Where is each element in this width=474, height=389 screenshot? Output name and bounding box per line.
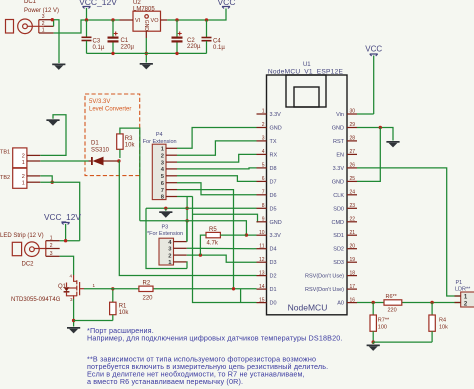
capacitor C3 — [82, 20, 105, 53]
svg-text:SD1: SD1 — [333, 233, 344, 239]
DC2 pin 3 — [46, 251, 60, 257]
wire DC1 pin2 to pin3 junction — [53, 20, 55, 27]
P3 pin 2 — [174, 254, 187, 256]
svg-text:4: 4 — [69, 274, 72, 279]
wire GND row to D5 pin — [146, 207, 257, 209]
junction R7 top — [372, 301, 375, 304]
ground (LDR divider) — [367, 345, 380, 347]
junction C3 top — [85, 18, 88, 21]
U1 pin 5 D8 — [257, 163, 277, 172]
svg-text:25: 25 — [350, 176, 356, 182]
svg-text:16: 16 — [350, 297, 356, 303]
U1 pin 17 RSV(Don't Use) — [305, 284, 357, 293]
svg-text:R6**: R6** — [386, 294, 398, 300]
wire D1 row to D0 row — [240, 289, 242, 303]
U1 pin 10 3.3V — [257, 230, 282, 239]
wire R3 top to 3.3V line — [120, 128, 140, 221]
svg-text:24: 24 — [350, 190, 356, 196]
svg-text:R1: R1 — [119, 304, 127, 310]
U1 pin 25 GND — [332, 176, 357, 185]
svg-text:19: 19 — [350, 257, 356, 263]
svg-text:P3: P3 — [162, 224, 169, 230]
svg-text:P4: P4 — [156, 132, 163, 138]
wire U2 GND to bottom rail, ground — [145, 38, 147, 63]
svg-text:VCC_12V: VCC_12V — [44, 212, 81, 222]
svg-text:D8: D8 — [270, 166, 277, 172]
P4 pin 3 — [166, 161, 177, 163]
svg-text:10k: 10k — [439, 324, 448, 330]
svg-text:GND: GND — [332, 126, 344, 132]
supply VCC_12V (top) — [79, 0, 117, 20]
U1 pin 3 TX — [257, 136, 277, 145]
svg-text:D5: D5 — [270, 206, 277, 212]
U1 pin 12 D3 — [257, 257, 277, 266]
U2 VO pin — [161, 19, 168, 21]
svg-text:14: 14 — [259, 284, 265, 290]
svg-text:3.3V: 3.3V — [333, 166, 345, 172]
wire P4.4 to D8 — [177, 168, 257, 169]
junction C2 bottom — [175, 52, 178, 55]
wire R7 to ground — [372, 342, 374, 344]
svg-text:CMD: CMD — [331, 220, 344, 226]
wire P4.8 stub across — [177, 196, 193, 198]
wire VCC to Vin — [357, 113, 374, 115]
terminal TB2 — [0, 168, 27, 188]
svg-text:TB1: TB1 — [0, 150, 10, 156]
svg-text:D1: D1 — [270, 287, 277, 293]
U1 pin 28 RST — [333, 136, 357, 145]
wire P3.3 to D4 — [187, 247, 257, 249]
resistor R4 — [429, 303, 448, 343]
U1 pin 15 D0 — [257, 297, 277, 306]
svg-text:18: 18 — [350, 270, 356, 276]
ground (regulator) — [140, 63, 153, 65]
svg-text:SD0: SD0 — [333, 206, 344, 212]
svg-text:DC1: DC1 — [24, 0, 37, 5]
note text block 1 — [87, 326, 343, 343]
P4 pin 2 — [166, 154, 177, 156]
svg-text:1: 1 — [262, 109, 265, 115]
wire P4.7 to gate net — [177, 190, 234, 289]
U1 pin 4 RX — [257, 149, 278, 158]
connector P3 — [147, 224, 183, 266]
svg-text:SD3: SD3 — [333, 260, 344, 266]
svg-text:D6: D6 — [270, 193, 277, 199]
U1 pin 8 D5 — [257, 203, 277, 212]
regulator U2 LM7805 — [133, 0, 161, 31]
DC1 pin 2 — [42, 21, 54, 27]
ground (mid bus) — [159, 208, 172, 217]
svg-text:3: 3 — [50, 251, 53, 257]
svg-text:TX: TX — [270, 139, 277, 145]
U1 pin 1 3.3V — [257, 109, 282, 118]
supply VCC_12V (LED strip) — [44, 212, 81, 241]
svg-text:13: 13 — [259, 270, 265, 276]
U1 pin 19 SD3 — [333, 257, 357, 266]
supply VCC (U1 Vin) — [365, 45, 382, 115]
svg-text:TB2: TB2 — [0, 175, 10, 181]
U1 pin 18 RSV(Don't Use) — [305, 270, 357, 279]
resistor R3 — [117, 134, 136, 149]
svg-text:1: 1 — [22, 160, 25, 166]
svg-text:D4: D4 — [270, 247, 277, 253]
svg-text:Vin: Vin — [336, 112, 344, 118]
U1 pin 24 CLK — [333, 190, 357, 199]
TB1 pin 1 — [27, 160, 40, 162]
junction C2 top — [175, 18, 178, 21]
svg-text:D3: D3 — [270, 260, 277, 266]
svg-text:9: 9 — [262, 217, 265, 223]
P4 pin 6 — [166, 182, 177, 184]
svg-text:NTD3055-094T4G: NTD3055-094T4G — [11, 297, 61, 303]
U2 VI pin — [120, 19, 134, 21]
svg-text:а вместо R6 устанавливаем пере: а вместо R6 устанавливаем перемычку (0R)… — [87, 377, 243, 386]
svg-text:D1: D1 — [91, 141, 99, 147]
resistor R1 — [110, 289, 130, 321]
svg-text:RSV(Don't Use): RSV(Don't Use) — [305, 274, 344, 280]
wire bottom GND rail — [87, 52, 207, 54]
svg-text:2: 2 — [22, 154, 25, 160]
svg-text:5V/3.3V: 5V/3.3V — [89, 99, 110, 105]
U2 GND pin — [145, 31, 147, 38]
junction TB2 — [51, 181, 54, 184]
junction C1 top — [111, 18, 114, 21]
wire DC1 pin1 to VCC_12V rail — [54, 20, 87, 33]
svg-text:10k: 10k — [119, 310, 130, 316]
P4 pin 4 — [166, 168, 177, 170]
svg-text:3: 3 — [70, 297, 73, 302]
svg-text:C3: C3 — [93, 39, 101, 45]
U1 pin 21 SD1 — [333, 230, 357, 239]
junction ground mid — [164, 207, 167, 210]
ground (U1) — [386, 141, 399, 143]
svg-text:7: 7 — [262, 190, 265, 196]
svg-text:2: 2 — [50, 243, 53, 249]
svg-text:21: 21 — [350, 230, 356, 236]
wire GND pin29 to pin25 — [357, 128, 380, 182]
junction P4.7 gate — [232, 287, 235, 290]
svg-text:20: 20 — [350, 243, 356, 249]
resistor R7 — [370, 303, 390, 343]
wire source to R1 bottom — [74, 320, 113, 322]
svg-text:D2: D2 — [270, 274, 277, 280]
wire P4.5 to D7 — [177, 176, 257, 182]
svg-text:RST: RST — [333, 139, 345, 145]
svg-text:17: 17 — [350, 284, 356, 290]
wire R3 bottom — [119, 149, 121, 158]
U1 pin 7 D6 — [257, 190, 277, 199]
U1 pin 23 SD0 — [333, 203, 357, 212]
svg-text:2: 2 — [42, 21, 45, 27]
junction R5 pull-up tap — [199, 253, 202, 256]
wire GND pin29 — [357, 128, 393, 141]
svg-text:Power (12 V): Power (12 V) — [24, 8, 59, 14]
DC1 pin 3 — [39, 14, 54, 20]
junction C1 bottom — [111, 52, 114, 55]
svg-text:6: 6 — [262, 176, 265, 182]
svg-text:3: 3 — [262, 136, 265, 142]
wire A0 net — [357, 302, 384, 304]
TB1 pin 2 — [27, 154, 40, 156]
wire TB2 to 12V node — [40, 182, 79, 241]
svg-text:22: 22 — [350, 217, 356, 223]
wire 3.3V pin26 to P1.1 — [357, 168, 461, 296]
module U1 NodeMCU_V1_ESP12E — [267, 62, 348, 315]
wire TB2.2 to TB2.1 — [40, 176, 52, 182]
svg-text:30: 30 — [350, 109, 356, 115]
U1 pin 30 Vin — [336, 109, 357, 118]
svg-text:GND: GND — [270, 220, 282, 226]
svg-text:R5: R5 — [209, 227, 217, 233]
wire Q1 source to ground/R1 — [73, 299, 75, 327]
svg-text:U1: U1 — [303, 62, 311, 68]
junction U2 GND rail — [145, 52, 148, 55]
DC2 pin 1 — [46, 235, 60, 241]
svg-text:2: 2 — [161, 153, 164, 159]
svg-text:10: 10 — [259, 230, 265, 236]
svg-text:1: 1 — [42, 28, 45, 34]
svg-text:D0: D0 — [270, 301, 277, 307]
wire P4.3 to RX — [177, 154, 257, 162]
wire P4.1 to GND pin2 — [177, 128, 257, 149]
ground (TB1) — [46, 119, 59, 121]
U1 pin 2 GND — [257, 122, 282, 131]
U1 pin 6 D7 — [257, 176, 277, 185]
svg-text:EN: EN — [336, 152, 344, 158]
wire top rail left — [87, 19, 120, 21]
svg-text:GND: GND — [143, 20, 149, 32]
P4 pin 7 — [166, 189, 177, 191]
svg-text:R2: R2 — [143, 280, 151, 286]
svg-text:29: 29 — [350, 122, 356, 128]
capacitor C2 (polarized) — [172, 20, 202, 53]
svg-text:1: 1 — [50, 235, 53, 241]
svg-text:2: 2 — [22, 174, 25, 180]
DC1 pin 1 — [39, 28, 54, 34]
transistor Q1 NTD3055-094T4G — [11, 274, 96, 303]
svg-text:C2: C2 — [187, 38, 195, 44]
U1 pin 22 CMD — [331, 217, 357, 226]
U1 pin 14 D1 — [257, 284, 277, 293]
svg-text:4.7k: 4.7k — [207, 240, 219, 246]
wire P3.1 to GND loop — [186, 262, 188, 269]
P3 pin 1 — [174, 261, 187, 263]
P3 pin 3 — [174, 247, 187, 249]
wire P3.4 up to 3.3V line — [186, 221, 188, 242]
svg-text:Level Converter: Level Converter — [89, 107, 131, 113]
svg-text:R3: R3 — [125, 136, 133, 142]
svg-text:12: 12 — [259, 257, 265, 263]
svg-text:VI: VI — [135, 18, 141, 24]
supply VCC (5V) — [218, 0, 236, 9]
TB2 pin 1 — [27, 181, 40, 183]
svg-text:27: 27 — [350, 149, 356, 155]
junction bus 3.3V row — [185, 219, 188, 222]
svg-text:100: 100 — [378, 324, 387, 330]
note text block 2 — [87, 355, 328, 387]
capacitor C1 (polarized) — [108, 20, 135, 53]
svg-text:11: 11 — [259, 243, 264, 249]
junction R1 top — [111, 287, 114, 290]
svg-text:SD2: SD2 — [333, 247, 344, 253]
svg-text:GND: GND — [270, 126, 282, 132]
DC2 pin 2 — [46, 243, 60, 249]
junction C4 top — [205, 18, 208, 21]
connector DC1 — [6, 0, 60, 34]
resistor R6 — [384, 294, 402, 314]
svg-text:4: 4 — [262, 149, 265, 155]
P4 pin 8 — [166, 196, 177, 198]
svg-text:10k: 10k — [125, 143, 136, 149]
U1 pin 29 GND — [332, 122, 357, 131]
connector P4 — [143, 132, 177, 201]
svg-text:Например, для подключения цифр: Например, для подключения цифровых датчи… — [87, 334, 343, 343]
wire top rail right (VCC) — [167, 9, 226, 21]
svg-text:26: 26 — [350, 163, 356, 169]
svg-text:28: 28 — [350, 136, 356, 142]
svg-text:GND: GND — [332, 179, 344, 185]
wire 3.3V line to pin10 — [140, 221, 257, 235]
svg-text:1: 1 — [22, 180, 25, 186]
svg-text:DC2: DC2 — [22, 262, 35, 268]
svg-text:2: 2 — [262, 122, 265, 128]
connector P1 LDR — [455, 280, 474, 307]
svg-text:3: 3 — [42, 14, 45, 20]
diode D1 SS310 — [91, 141, 119, 166]
P1 pin 2 — [455, 302, 461, 304]
svg-text:R7**: R7** — [378, 318, 390, 324]
wire GND bus vertical — [186, 197, 188, 242]
svg-text:0.1µ: 0.1µ — [213, 45, 225, 51]
svg-text:CLK: CLK — [333, 193, 344, 199]
svg-text:220µ: 220µ — [121, 45, 135, 51]
wire level converter output down to D2 — [119, 161, 257, 276]
svg-text:8: 8 — [262, 203, 265, 209]
svg-text:220: 220 — [143, 296, 154, 302]
svg-text:A0: A0 — [337, 301, 344, 307]
svg-text:R4: R4 — [439, 318, 446, 324]
svg-text:220: 220 — [388, 307, 397, 313]
level converter dashed box — [85, 94, 140, 176]
wire gate net (Q1 to R2 to D1 pin) — [84, 288, 139, 290]
junction D1/R3 — [117, 159, 120, 162]
svg-text:2: 2 — [168, 253, 171, 259]
svg-text:D7: D7 — [270, 179, 277, 185]
P4 pin 1 — [166, 147, 177, 149]
U1 pin 9 GND — [257, 217, 282, 226]
wire TB1.1 to D1 — [40, 160, 88, 162]
junction R5 right — [245, 233, 248, 236]
ground (Q1) — [67, 327, 80, 329]
svg-text:U2: U2 — [133, 0, 141, 6]
junction DC2.1 — [64, 239, 67, 242]
svg-text:5: 5 — [262, 163, 265, 169]
wire GND left branch down and around P3 — [146, 208, 187, 268]
U1 pin 27 EN — [336, 149, 357, 158]
svg-text:C4: C4 — [213, 39, 221, 45]
P1 pin 1 — [455, 295, 461, 297]
wire P4.8/D0 vertical — [193, 196, 257, 302]
wire GND jog to pin9 — [193, 214, 258, 221]
svg-text:C1: C1 — [121, 38, 129, 44]
svg-text:NodeMCU: NodeMCU — [288, 303, 328, 313]
P4 pin 5 — [166, 175, 177, 177]
resistor R2 — [139, 280, 153, 301]
wire P4.6 to D6 — [177, 183, 257, 195]
svg-text:7: 7 — [161, 188, 164, 194]
TB2 pin 2 — [27, 175, 40, 177]
svg-text:LED Strip (12 V): LED Strip (12 V) — [0, 233, 44, 239]
svg-text:VCC: VCC — [365, 45, 382, 54]
svg-text:*For Extension: *For Extension — [147, 231, 183, 237]
junction pin29 — [379, 126, 382, 129]
junction DC1 — [51, 18, 54, 21]
ground (power input) — [52, 64, 65, 66]
terminal TB1 — [0, 148, 27, 168]
U1 pin 16 A0 — [337, 297, 357, 306]
svg-text:0.1µ: 0.1µ — [93, 45, 105, 51]
capacitor C4 — [202, 20, 226, 53]
svg-text:220µ: 220µ — [187, 44, 201, 50]
resistor R5 — [200, 227, 246, 255]
U1 pin 11 D4 — [257, 243, 277, 252]
svg-text:3.3V: 3.3V — [270, 112, 282, 118]
wire junction to ground drop — [52, 20, 59, 63]
svg-text:23: 23 — [350, 203, 356, 209]
svg-text:RX: RX — [270, 152, 278, 158]
svg-text:SS310: SS310 — [91, 148, 110, 154]
junction R7 bottom — [372, 340, 375, 343]
wire TB1.2 to ground — [40, 115, 66, 156]
junction bus D5 row — [185, 207, 188, 210]
svg-text:3.3V: 3.3V — [270, 233, 282, 239]
wire DC2.3 to Q1 drain — [60, 256, 74, 275]
U1 pin 26 3.3V — [333, 163, 357, 172]
svg-text:1: 1 — [93, 283, 96, 288]
junction R4 top — [430, 301, 433, 304]
svg-text:VO: VO — [151, 18, 160, 24]
wire 12V node at DC2.1 — [60, 240, 80, 242]
wire R7/R4 bottoms — [373, 341, 432, 343]
svg-text:P1: P1 — [456, 280, 463, 286]
U1 pin 20 SD2 — [333, 243, 357, 252]
U1 pin 13 D2 — [257, 270, 277, 279]
P3 pin 4 — [174, 241, 187, 243]
wire P3.2 to D3 — [187, 255, 257, 262]
connector DC2 — [0, 233, 46, 268]
svg-text:15: 15 — [259, 297, 265, 303]
wire P4.2 to TX — [177, 141, 257, 155]
svg-text:RSV(Don't Use): RSV(Don't Use) — [305, 287, 344, 293]
junction source — [72, 319, 75, 322]
